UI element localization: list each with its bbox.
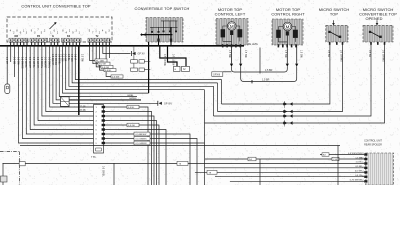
svg-text:0,5 WS/VI/SW: 0,5 WS/VI/SW	[348, 153, 363, 155]
svg-text:0,5 GE: 0,5 GE	[13, 57, 15, 65]
svg-text:M: M	[286, 24, 290, 29]
svg-text:1,5 BR: 1,5 BR	[355, 157, 362, 159]
svg-text:G: G	[52, 35, 54, 38]
svg-text:0,5 GN: 0,5 GN	[61, 54, 63, 62]
svg-text:GN/BL: GN/BL	[127, 95, 134, 97]
svg-text:0,5 GN/BL: 0,5 GN/BL	[24, 57, 26, 68]
svg-text:0,5 GN: 0,5 GN	[355, 175, 362, 177]
svg-text:0,5 BR: 0,5 BR	[327, 50, 329, 57]
svg-text:CONTROL RIGHT: CONTROL RIGHT	[271, 12, 305, 17]
svg-text:CONTROL UNIT CONVERTIBLE TOP: CONTROL UNIT CONVERTIBLE TOP	[21, 4, 90, 9]
svg-text:0,5 RT: 0,5 RT	[5, 57, 7, 64]
svg-text:0,5 BL: 0,5 BL	[128, 107, 135, 109]
svg-text:0,5 BR/GE: 0,5 BR/GE	[54, 54, 56, 65]
svg-text:0,5 GE: 0,5 GE	[128, 125, 135, 127]
svg-text:0,75 SW/GN: 0,75 SW/GN	[350, 180, 363, 182]
svg-text:0,5 BL: 0,5 BL	[67, 54, 69, 61]
svg-text:1,5 BR: 1,5 BR	[265, 69, 273, 72]
svg-text:0,5 SW: 0,5 SW	[112, 77, 120, 79]
svg-text:0,5 GR: 0,5 GR	[102, 67, 109, 69]
svg-text:0,5 GN/BL: 0,5 GN/BL	[102, 166, 104, 177]
svg-text:31, 15B: 31, 15B	[96, 61, 104, 63]
svg-text:T 55: T 55	[91, 157, 96, 159]
svg-text:0,5 WS/BL: 0,5 WS/BL	[40, 57, 42, 69]
svg-text:M2: M2	[15, 35, 19, 38]
svg-text:GP XIV: GP XIV	[164, 103, 172, 106]
svg-text:CONVERTIBLE TOP SWITCH: CONVERTIBLE TOP SWITCH	[135, 6, 190, 11]
svg-text:0,5 GN/SW: 0,5 GN/SW	[136, 143, 148, 145]
svg-text:0,5 GR: 0,5 GR	[64, 54, 66, 62]
svg-text:TOP: TOP	[330, 12, 339, 17]
svg-text:0,5 BR/SW: 0,5 BR/SW	[136, 134, 148, 136]
svg-text:1,5 SW: 1,5 SW	[228, 50, 230, 58]
svg-text:M: M	[230, 24, 234, 29]
svg-text:0,5 SW/RT: 0,5 SW/RT	[51, 54, 53, 66]
svg-text:0,5 VI: 0,5 VI	[73, 54, 75, 60]
svg-text:0,5 WS: 0,5 WS	[70, 54, 72, 62]
svg-text:0,5 BL: 0,5 BL	[105, 70, 112, 72]
svg-text:RE,LE/BL: RE,LE/BL	[248, 44, 259, 46]
svg-text:0,5 SW/GE: 0,5 SW/GE	[20, 57, 22, 69]
svg-text:0,5 SW: 0,5 SW	[355, 171, 363, 173]
svg-text:0,75 LI/SW: 0,75 LI/SW	[172, 54, 174, 66]
svg-text:0,5 SW/BL: 0,5 SW/BL	[48, 57, 50, 69]
svg-text:0,5 GN/WS: 0,5 GN/WS	[340, 50, 342, 62]
svg-text:0,5 GN/WS: 0,5 GN/WS	[382, 50, 384, 62]
svg-text:27,5B: 27,5B	[80, 106, 86, 108]
svg-text:CONTROL LEFT: CONTROL LEFT	[215, 12, 246, 17]
svg-text:1,5 SW: 1,5 SW	[244, 50, 246, 58]
svg-text:0,5 WS/RT: 0,5 WS/RT	[44, 57, 46, 69]
svg-text:0,5 GN/WS: 0,5 GN/WS	[136, 139, 148, 141]
svg-text:1,5 SW: 1,5 SW	[284, 50, 286, 58]
svg-text:0,5 BR: 0,5 BR	[368, 50, 370, 57]
svg-text:OPENED: OPENED	[365, 16, 382, 21]
svg-text:CONTROL UNIT: CONTROL UNIT	[364, 140, 382, 143]
svg-text:GPXIII: GPXIII	[213, 73, 220, 76]
svg-text:27,3B: 27,3B	[80, 110, 86, 112]
svg-text:REAR SPOILER: REAR SPOILER	[364, 143, 382, 146]
svg-text:0,5 BR/BL: 0,5 BR/BL	[57, 54, 59, 65]
svg-text:1,5 BR: 1,5 BR	[262, 79, 270, 82]
svg-text:0,75 VI/SW: 0,75 VI/SW	[163, 54, 165, 66]
svg-text:GP XV: GP XV	[138, 53, 146, 56]
svg-text:1,5 SW: 1,5 SW	[300, 50, 302, 58]
svg-text:0,5 BR: 0,5 BR	[355, 166, 362, 168]
svg-text:0,5 GR/BL: 0,5 GR/BL	[32, 57, 34, 68]
svg-text:0,5 GR/RT: 0,5 GR/RT	[36, 57, 38, 69]
svg-text:53, GE: 53, GE	[99, 64, 106, 66]
svg-text:2,5 SW: 2,5 SW	[81, 54, 83, 62]
svg-text:0,5 SW: 0,5 SW	[16, 57, 18, 65]
svg-text:0,5 GN/RT: 0,5 GN/RT	[28, 57, 30, 69]
svg-text:1,5 BL: 1,5 BL	[356, 162, 363, 164]
